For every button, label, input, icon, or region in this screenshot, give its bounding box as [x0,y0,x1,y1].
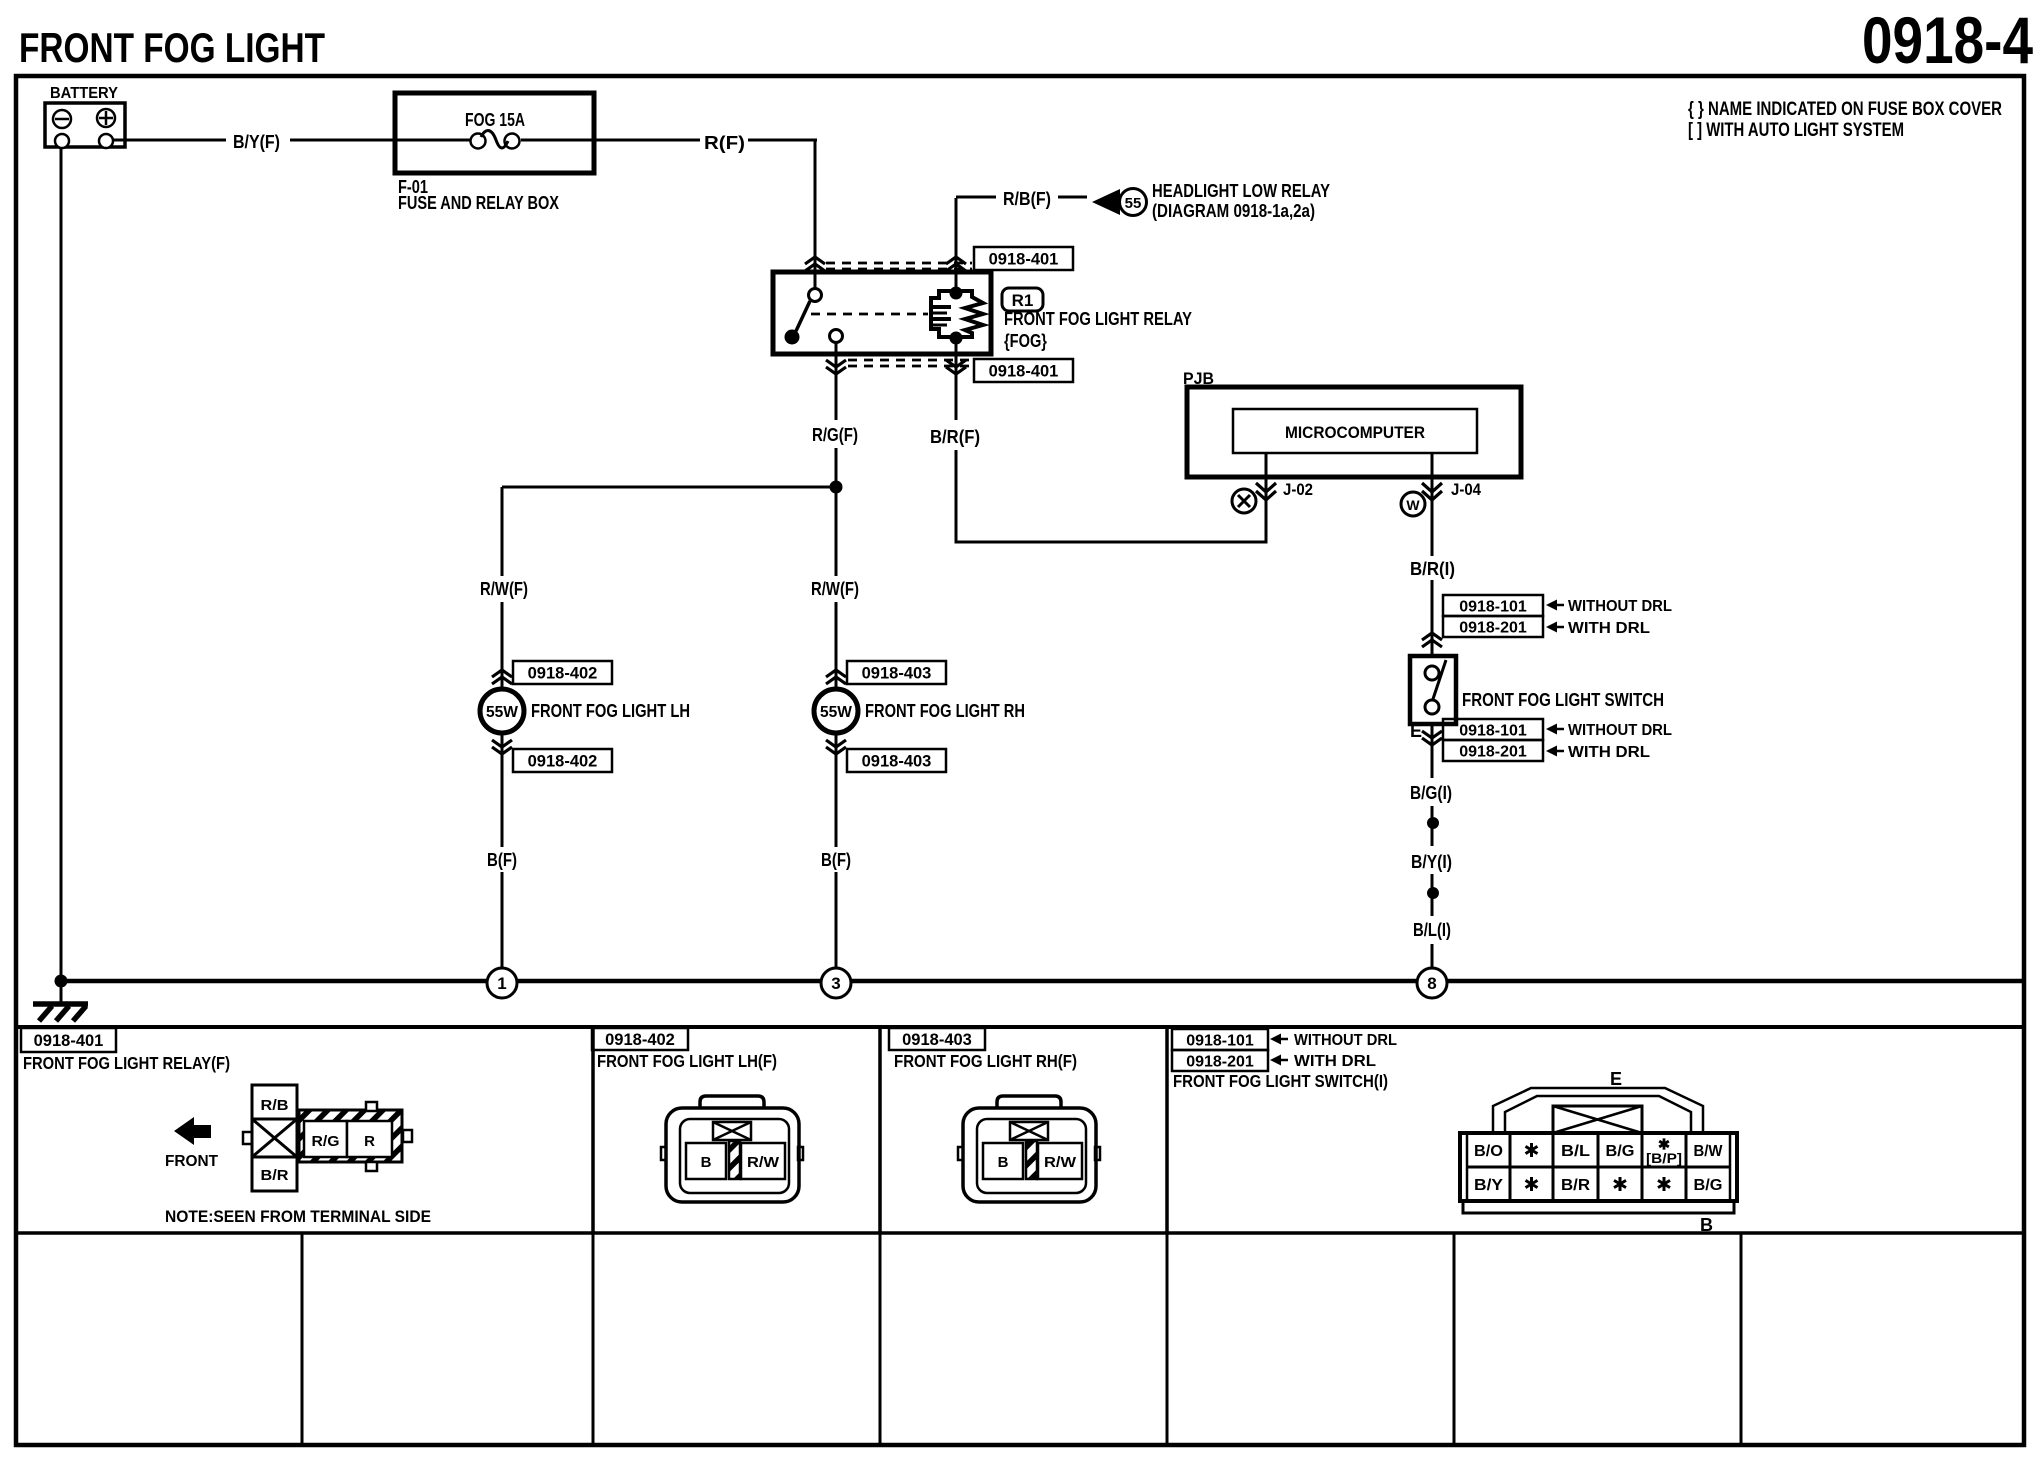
svg-text:0918-401: 0918-401 [989,362,1059,380]
svg-text:0918-201: 0918-201 [1459,743,1527,760]
svg-text:0918-401: 0918-401 [34,1032,104,1050]
svg-text:B/W: B/W [1694,1143,1724,1160]
svg-text:0918-101: 0918-101 [1186,1032,1254,1049]
svg-text:W: W [1406,497,1420,513]
svg-text:FRONT FOG LIGHT RELAY: FRONT FOG LIGHT RELAY [1004,309,1192,329]
svg-text:FRONT: FRONT [165,1153,218,1170]
svg-text:FRONT FOG LIGHT SWITCH: FRONT FOG LIGHT SWITCH [1462,690,1664,710]
svg-text:0918-101: 0918-101 [1459,598,1527,615]
svg-text:B(F): B(F) [821,850,851,870]
svg-text:55W: 55W [486,704,519,721]
svg-text:B/G: B/G [1606,1143,1635,1160]
svg-text:R/B: R/B [261,1097,289,1114]
svg-text:FOG 15A: FOG 15A [465,110,525,130]
svg-text:1: 1 [497,974,506,993]
svg-text:E: E [1610,1069,1622,1089]
svg-text:WITHOUT DRL: WITHOUT DRL [1294,1032,1397,1049]
svg-text:B: B [701,1154,712,1171]
svg-text:0918-101: 0918-101 [1459,722,1527,739]
svg-text:R/W(F): R/W(F) [480,579,528,599]
svg-text:B/Y: B/Y [1474,1177,1503,1194]
svg-text:0918-401: 0918-401 [989,250,1059,268]
svg-text:NOTE:SEEN FROM TERMINAL SIDE: NOTE:SEEN FROM TERMINAL SIDE [165,1207,431,1226]
svg-text:{ } NAME INDICATED ON FUSE BOX: { } NAME INDICATED ON FUSE BOX COVER [1688,99,2002,120]
svg-text:R: R [364,1133,375,1150]
svg-text:BATTERY: BATTERY [50,85,118,102]
svg-text:B/O: B/O [1474,1143,1503,1160]
svg-text:{FOG}: {FOG} [1004,331,1047,351]
svg-text:0918-402: 0918-402 [528,752,598,770]
svg-text:55W: 55W [820,704,853,721]
svg-text:WITHOUT DRL: WITHOUT DRL [1568,598,1672,615]
svg-text:FRONT FOG LIGHT RH(F): FRONT FOG LIGHT RH(F) [894,1051,1077,1071]
svg-text:WITH DRL: WITH DRL [1568,744,1650,761]
svg-text:WITH DRL: WITH DRL [1294,1053,1376,1070]
svg-text:B/G: B/G [1694,1177,1723,1194]
svg-text:B/G(I): B/G(I) [1410,783,1452,803]
svg-text:E: E [1410,721,1422,741]
svg-text:0918-402: 0918-402 [605,1031,675,1049]
svg-text:B: B [998,1154,1009,1171]
svg-text:WITHOUT DRL: WITHOUT DRL [1568,722,1672,739]
svg-text:B/R(I): B/R(I) [1410,559,1455,579]
svg-text:R(F): R(F) [704,133,745,153]
svg-text:0918-402: 0918-402 [528,664,598,682]
svg-text:0918-403: 0918-403 [862,664,932,682]
svg-text:R/W: R/W [1044,1154,1077,1171]
svg-text:0918-201: 0918-201 [1459,619,1527,636]
svg-text:(DIAGRAM 0918-1a,2a): (DIAGRAM 0918-1a,2a) [1152,201,1315,221]
svg-text:MICROCOMPUTER: MICROCOMPUTER [1285,423,1425,442]
svg-text:B: B [1700,1215,1713,1235]
svg-text:3: 3 [831,974,840,993]
svg-text:8: 8 [1427,974,1436,993]
svg-text:B/R: B/R [1561,1177,1590,1194]
svg-text:R/B(F): R/B(F) [1003,189,1051,209]
svg-text:FRONT FOG LIGHT LH(F): FRONT FOG LIGHT LH(F) [597,1051,777,1071]
svg-text:[ ] WITH AUTO LIGHT SYSTEM: [ ] WITH AUTO LIGHT SYSTEM [1688,120,1904,141]
svg-text:FRONT FOG LIGHT LH: FRONT FOG LIGHT LH [531,701,690,721]
svg-text:FRONT FOG LIGHT: FRONT FOG LIGHT [19,24,325,71]
svg-text:B(F): B(F) [487,850,517,870]
svg-text:0918-4: 0918-4 [1862,3,2033,77]
svg-text:FRONT FOG LIGHT SWITCH(I): FRONT FOG LIGHT SWITCH(I) [1173,1071,1388,1091]
svg-text:J-02: J-02 [1283,480,1313,499]
svg-text:0918-403: 0918-403 [902,1031,972,1049]
svg-text:FRONT FOG LIGHT RELAY(F): FRONT FOG LIGHT RELAY(F) [23,1053,230,1073]
svg-text:R/W(F): R/W(F) [811,579,859,599]
svg-text:WITH DRL: WITH DRL [1568,620,1650,637]
svg-text:HEADLIGHT LOW RELAY: HEADLIGHT LOW RELAY [1152,181,1330,201]
svg-text:R/G(F): R/G(F) [812,425,858,445]
svg-text:0918-403: 0918-403 [862,752,932,770]
svg-text:[B/P]: [B/P] [1646,1151,1682,1166]
svg-text:FUSE AND RELAY BOX: FUSE AND RELAY BOX [398,193,559,213]
svg-text:0918-201: 0918-201 [1186,1053,1254,1070]
svg-text:B/R: B/R [261,1167,289,1184]
svg-text:J-04: J-04 [1451,480,1481,499]
svg-text:B/R(F): B/R(F) [930,427,980,447]
svg-text:B/L: B/L [1561,1143,1590,1160]
svg-text:R1: R1 [1012,291,1034,310]
svg-text:B/Y(I): B/Y(I) [1411,852,1452,872]
svg-text:FRONT FOG LIGHT RH: FRONT FOG LIGHT RH [865,701,1025,721]
svg-text:B/Y(F): B/Y(F) [233,132,280,152]
svg-text:R/G: R/G [312,1133,340,1150]
svg-text:R/W: R/W [747,1154,780,1171]
svg-text:55: 55 [1125,195,1142,212]
svg-text:B/L(I): B/L(I) [1413,920,1451,940]
